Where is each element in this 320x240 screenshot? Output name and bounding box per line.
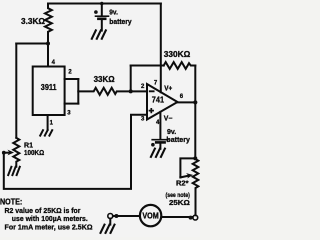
battery B2 plus dot — [151, 143, 155, 147]
wire pins 2-3 connector — [77, 79, 79, 104]
wire 330K right end down to output — [194, 66, 196, 103]
wire node B up to feedback line — [130, 66, 132, 92]
svg-text:V+: V+ — [164, 85, 172, 92]
wire op-amp pin 4 to battery — [159, 112, 161, 139]
node A junction dot — [46, 42, 50, 46]
meter VOM circle — [140, 205, 161, 226]
wire left rail down to R1 — [15, 44, 17, 138]
wire VOM to right terminal — [161, 216, 192, 218]
node wiper junction dot — [2, 151, 6, 155]
svg-text:741: 741 — [152, 95, 165, 105]
wire op-amp output pin 6 — [178, 101, 196, 103]
wire node B to op-amp pin 2 — [131, 90, 147, 92]
svg-text:battery: battery — [166, 135, 190, 144]
wire 3911 pin 2 stub — [65, 78, 79, 80]
svg-text:3.3KΩ: 3.3KΩ — [21, 17, 46, 26]
wire R2 loop — [180, 158, 195, 177]
ground VOM — [101, 225, 115, 233]
svg-text:V−: V− — [164, 116, 173, 123]
wire feedback line left — [131, 65, 164, 67]
wire top rail — [48, 3, 161, 5]
node output junction dot — [193, 100, 197, 104]
wire left terminal to ground — [109, 219, 111, 225]
node R2 top junction dot — [193, 156, 197, 160]
svg-text:3911: 3911 — [41, 83, 57, 92]
svg-text:For 1mA meter, use 2.5KΩ: For 1mA meter, use 2.5KΩ — [5, 222, 93, 231]
wire right rail output down to R2 — [194, 102, 196, 159]
svg-text:VOM: VOM — [142, 212, 159, 221]
op-amp minus sign — [150, 90, 154, 92]
wire op-amp pin 3 to R1 wiper — [4, 115, 147, 189]
svg-text:R2*: R2* — [176, 178, 189, 187]
node right terminal dot — [189, 216, 193, 220]
battery B1 plus dot — [94, 10, 98, 14]
battery B2 9v plates — [152, 139, 168, 141]
svg-text:330KΩ: 330KΩ — [164, 50, 191, 59]
ground battery B1 — [92, 30, 106, 38]
terminal left open circle — [108, 214, 113, 219]
node B junction dot — [129, 89, 133, 93]
wire R1 wiper arrow — [4, 152, 10, 154]
resistor R2 25K — [193, 159, 199, 215]
svg-text:9v.: 9v. — [109, 8, 118, 17]
svg-text:100KΩ: 100KΩ — [24, 148, 44, 157]
IC U1 3911 box — [33, 67, 65, 116]
battery B1 plates — [96, 15, 109, 17]
resistor 330K — [164, 62, 196, 69]
svg-text:25KΩ: 25KΩ — [169, 198, 190, 207]
resistor R1 100K — [13, 138, 19, 167]
battery B1 9v drop from rail — [100, 2, 104, 6]
wire 3911 pin 1 stub — [47, 115, 49, 130]
ground battery B2 — [151, 149, 165, 157]
wire left terminal to VOM — [113, 215, 140, 217]
op-amp U2 741 triangle — [147, 84, 178, 120]
node left terminal dot — [114, 214, 118, 218]
wire V+ rail drop to op-amp pin 7 — [160, 4, 162, 93]
svg-text:battery: battery — [109, 17, 132, 26]
ground R1 — [8, 167, 20, 175]
terminal right open circle — [193, 215, 198, 220]
resistor 33K — [78, 88, 130, 95]
resistor 3.3K — [45, 4, 52, 67]
ground 3911 pin1 — [40, 130, 52, 135]
svg-text:33KΩ: 33KΩ — [94, 75, 116, 84]
op-amp plus sign — [150, 109, 154, 113]
wire node A to left rail — [16, 43, 48, 45]
wire R2 wiper arrow — [180, 176, 188, 178]
wire 3911 pin 3 stub — [65, 103, 79, 105]
